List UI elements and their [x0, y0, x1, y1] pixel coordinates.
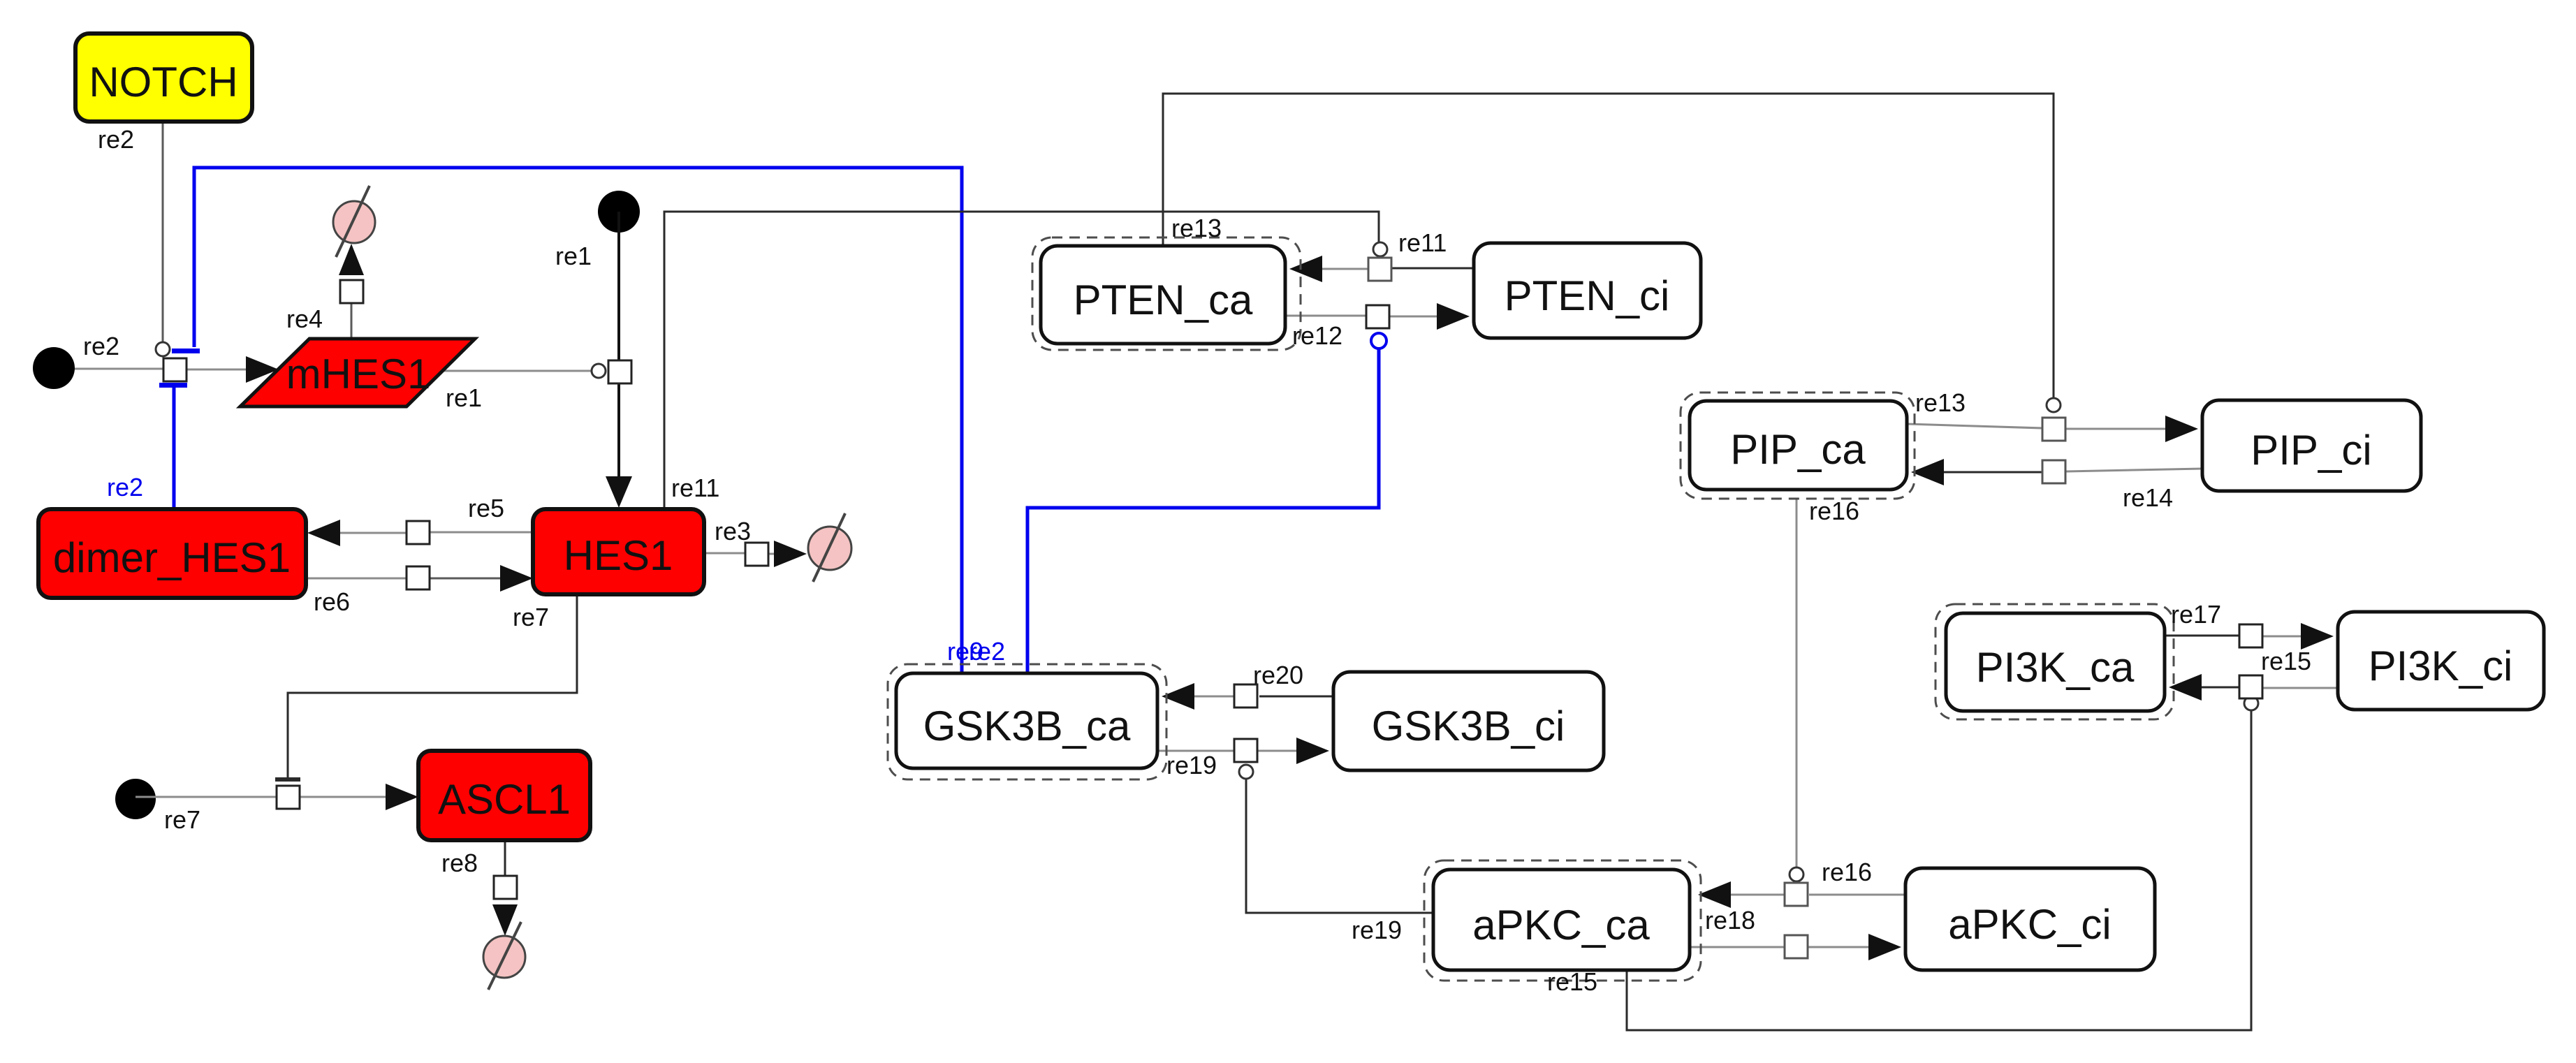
- process square re12: [1366, 305, 1389, 328]
- svg-text:PIP_ca: PIP_ca: [1730, 426, 1866, 473]
- arrow re3: [774, 541, 807, 567]
- modifier circle re11: [1373, 242, 1387, 256]
- svg-text:HES1: HES1: [564, 532, 673, 579]
- arrow re7 into ASCL1: [386, 784, 418, 810]
- wire re16 from aPKC_ci: [1809, 894, 1905, 896]
- node PTEN_ca (dashed active): [1032, 237, 1301, 350]
- wire re3 to degradation: [768, 553, 777, 555]
- wire re18 to aPKC_ci: [1808, 946, 1869, 948]
- svg-text:re13: re13: [1171, 214, 1222, 242]
- wire re5 from HES1: [430, 531, 533, 534]
- modifier circle re13: [2047, 398, 2061, 412]
- node dimer_HES1: [38, 509, 306, 598]
- degradation circle re4: [333, 201, 375, 243]
- arrow re19 into GSK3B_ci: [1296, 738, 1329, 764]
- wire re6 to HES1: [430, 578, 502, 580]
- inhibition dimer_HES1 to re2 (blue wire): [173, 387, 176, 509]
- svg-text:re19: re19: [1352, 916, 1402, 944]
- svg-text:re7: re7: [513, 603, 549, 631]
- wire re17 from PI3K_ca: [2165, 635, 2239, 637]
- svg-text:re15: re15: [2261, 647, 2311, 675]
- svg-text:re16: re16: [1809, 497, 1859, 525]
- process square re1: [608, 360, 631, 383]
- svg-text:PTEN_ca: PTEN_ca: [1074, 277, 1253, 323]
- svg-text:re4: re4: [286, 305, 323, 333]
- wire re2 reactant from source dot: [54, 368, 163, 370]
- process square re7: [277, 786, 300, 809]
- svg-text:re6: re6: [314, 587, 350, 616]
- svg-text:re12: re12: [1292, 321, 1342, 350]
- degradation circle re3: [808, 527, 851, 570]
- node GSK3B_ca (dashed active): [888, 664, 1166, 779]
- wire re11 to PTEN_ca: [1322, 268, 1368, 270]
- node re2 modifier circle: [156, 342, 170, 356]
- modifier wire aPKC_ca to re15: [1627, 710, 2251, 1030]
- arrow re14 into PIP_ca: [1911, 459, 1944, 485]
- arrow re2 into mHES1: [246, 356, 279, 383]
- wire re14 from PIP_ci: [2066, 469, 2202, 471]
- svg-text:re19: re19: [1166, 751, 1217, 779]
- svg-text:NOTCH: NOTCH: [89, 59, 237, 105]
- process square re4: [340, 280, 363, 303]
- degradation circle re8: [483, 936, 525, 978]
- inhibition wire HES1 to re7: [288, 594, 577, 777]
- svg-text:re8: re8: [441, 849, 478, 877]
- process square re13: [2042, 418, 2065, 441]
- node PI3K_ca (dashed active): [1935, 604, 2174, 719]
- process square re17: [2239, 624, 2262, 647]
- process square re8: [494, 876, 517, 899]
- svg-text:PTEN_ci: PTEN_ci: [1505, 272, 1670, 319]
- process square re19: [1234, 739, 1257, 762]
- wire re13 from PIP_ca: [1907, 424, 2042, 428]
- modifier wire PTEN_ca to re13: [1163, 94, 2054, 398]
- process square re6: [407, 566, 430, 589]
- wire NOTCH to re2 (modifier): [162, 122, 164, 342]
- svg-text:re20: re20: [1253, 661, 1303, 689]
- modifier wire mHES1 to re1: [443, 370, 591, 372]
- process square re2: [163, 358, 186, 381]
- modifier circle re19: [1239, 765, 1253, 779]
- modifier circle re1: [592, 364, 606, 378]
- svg-text:re2: re2: [107, 473, 143, 501]
- wire re20 to GSK3B_ca: [1194, 696, 1234, 698]
- modifier circle re16: [1790, 867, 1803, 881]
- svg-text:re16: re16: [1822, 858, 1872, 886]
- node PIP_ca (dashed active): [1681, 393, 1915, 499]
- process square re18: [1785, 935, 1808, 958]
- node mHES1 (RNA parallelogram): [240, 339, 475, 406]
- svg-text:PI3K_ci: PI3K_ci: [2369, 643, 2513, 689]
- svg-text:re17: re17: [2171, 600, 2221, 629]
- inhibition bar re2 lower (blue): [159, 383, 187, 388]
- wire re19 from GSK3B_ca: [1157, 750, 1234, 752]
- node NOTCH: [75, 34, 252, 122]
- node HES1: [533, 509, 704, 594]
- node aPKC_ci: [1905, 868, 2155, 970]
- wire re1 vertical: [617, 212, 620, 481]
- wire re12 from PTEN_ca: [1285, 315, 1366, 317]
- arrow re8 down: [492, 904, 518, 936]
- svg-text:re14: re14: [2123, 483, 2173, 512]
- arrow re11 into PTEN_ca: [1289, 256, 1322, 282]
- process square re14: [2042, 460, 2065, 483]
- node PTEN_ci: [1474, 243, 1701, 338]
- wire re14 to PIP_ca: [1943, 471, 2042, 474]
- svg-text:re2: re2: [98, 125, 134, 154]
- arrow re18 into aPKC_ci: [1868, 934, 1901, 960]
- process square re11: [1368, 258, 1391, 281]
- wire re3 from HES1: [704, 552, 745, 555]
- svg-text:re11: re11: [671, 474, 719, 502]
- wire re17 to PI3K_ci: [2262, 636, 2301, 638]
- arrow re1 into HES1: [606, 476, 632, 508]
- svg-text:re15: re15: [1547, 967, 1597, 996]
- svg-text:re1: re1: [555, 242, 592, 270]
- arrow re6 into HES1: [500, 565, 533, 592]
- wire re7 reactant: [136, 796, 277, 798]
- wire re8 from ASCL1: [504, 840, 506, 877]
- arrow re17 into PI3K_ci: [2301, 623, 2334, 650]
- svg-text:re2: re2: [83, 332, 119, 360]
- wire re16 to aPKC_ca: [1730, 894, 1785, 896]
- modifier wire PIP_ca to re16: [1796, 499, 1798, 867]
- wire re11 from PTEN_ci: [1391, 267, 1474, 270]
- modifier wire GSK3B_ca to re12 (blue): [1027, 349, 1379, 673]
- svg-text:re1: re1: [446, 383, 482, 412]
- arrow re12 into PTEN_ci: [1437, 303, 1470, 330]
- svg-text:aPKC_ci: aPKC_ci: [1948, 901, 2111, 948]
- svg-text:ASCL1: ASCL1: [438, 776, 571, 823]
- svg-text:GSK3B_ci: GSK3B_ci: [1372, 703, 1565, 749]
- arrow re15 into PI3K_ca: [2169, 674, 2202, 701]
- process square re16: [1785, 883, 1808, 906]
- wire re2 product to mHES1: [186, 369, 251, 371]
- modifier wire HES1 to re11: [664, 212, 1379, 509]
- modifier circle re15: [2244, 696, 2258, 710]
- node aPKC_ca (dashed active): [1424, 860, 1701, 981]
- source dot re1: [598, 191, 640, 233]
- arrow re20 into GSK3B_ca: [1162, 683, 1194, 710]
- node PI3K_ci: [2338, 612, 2544, 710]
- modifier circle re12 (blue): [1371, 333, 1386, 349]
- inhibition bar re7: [275, 777, 300, 782]
- svg-text:re5: re5: [468, 494, 504, 522]
- arrow re16 into aPKC_ca: [1698, 881, 1731, 908]
- process square re3: [745, 543, 768, 566]
- svg-text:dimer_HES1: dimer_HES1: [53, 534, 291, 581]
- source dot re2: [33, 347, 75, 389]
- wire re5 to dimer_HES1: [339, 532, 407, 534]
- svg-text:PIP_ci: PIP_ci: [2251, 427, 2371, 474]
- wire re20 from GSK3B_ci: [1259, 696, 1333, 698]
- process square re15: [2239, 675, 2262, 698]
- svg-text:re3: re3: [715, 517, 751, 545]
- svg-text:re2: re2: [969, 637, 1005, 666]
- process square re20: [1234, 684, 1257, 708]
- wire re15 from PI3K_ci: [2263, 687, 2338, 689]
- svg-text:re18: re18: [1705, 906, 1755, 934]
- wire re12 to PTEN_ci: [1389, 316, 1437, 318]
- source dot re7: [115, 779, 156, 819]
- process square re5: [407, 521, 430, 544]
- inhibition GSK3B_ca to re2 (blue wire): [194, 168, 962, 673]
- node PIP_ci: [2202, 400, 2421, 491]
- wire re15 to PI3K_ca: [2201, 687, 2239, 689]
- node GSK3B_ci: [1333, 672, 1604, 770]
- wire re6 from dimer_HES1: [306, 578, 407, 580]
- arrow re5 into dimer_HES1: [307, 520, 340, 546]
- wire re19 to GSK3B_ci: [1257, 750, 1298, 752]
- svg-text:GSK3B_ca: GSK3B_ca: [923, 703, 1131, 749]
- svg-text:PI3K_ca: PI3K_ca: [1976, 644, 2135, 691]
- arrow re13 into PIP_ci: [2165, 416, 2198, 442]
- svg-text:re7: re7: [164, 805, 200, 834]
- arrow re4 up to degradation: [339, 244, 364, 275]
- wire re13 to PIP_ci: [2065, 428, 2167, 430]
- svg-text:re13: re13: [1915, 388, 1966, 417]
- inhibition bar re2 upper (blue): [172, 349, 200, 353]
- wire re18 from aPKC_ca: [1690, 946, 1785, 948]
- modifier wire aPKC_ca to re19: [1246, 779, 1433, 913]
- wire re4 from mHES1: [351, 280, 353, 339]
- node ASCL1: [418, 751, 590, 840]
- svg-text:mHES1: mHES1: [286, 351, 431, 397]
- wire re7 product to ASCL1: [300, 796, 386, 798]
- svg-text:aPKC_ca: aPKC_ca: [1472, 902, 1650, 948]
- svg-text:re11: re11: [1398, 228, 1447, 257]
